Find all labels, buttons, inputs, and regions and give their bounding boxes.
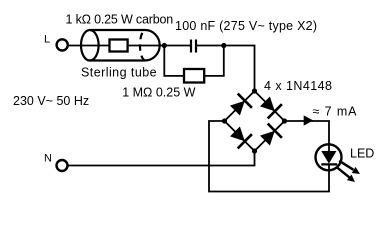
resistor R2 (1 MOhm) — [184, 69, 204, 83]
svg-text:Sterling tube: Sterling tube — [81, 65, 157, 79]
wire: L terminal to R1 — [68, 45, 110, 47]
wire: node A to capacitor C1 — [164, 45, 190, 47]
svg-text:N: N — [44, 153, 52, 165]
svg-text:1 kΩ 0.25 W carbon: 1 kΩ 0.25 W carbon — [66, 12, 174, 26]
node A (junction dot) — [162, 43, 167, 48]
LED D5 — [316, 144, 342, 170]
node B (junction dot) — [221, 43, 226, 48]
capacitor C1 (100 nF) — [191, 40, 196, 53]
wire: bridge right node to LED (with current arrow) — [285, 121, 330, 144]
wire: R1 to node A — [128, 45, 165, 47]
wire: R2 up to node B — [204, 46, 224, 76]
Sterling tube envelope — [81, 30, 160, 61]
resistor R1 (1 kOhm, inside tube) — [110, 40, 128, 52]
terminal L — [57, 39, 68, 50]
bridge edges (wires) — [225, 91, 285, 151]
LED light arrow 2 — [337, 167, 355, 182]
terminal N — [57, 160, 68, 171]
diode D3 (left node to bottom node) — [230, 127, 252, 149]
bridge right node — [282, 118, 287, 123]
diode D4 (bottom node to right node) — [260, 124, 282, 146]
svg-text:L: L — [44, 33, 50, 45]
diode D2 (top node to right node) — [260, 97, 282, 119]
wire: node B to bridge top node — [224, 46, 255, 92]
svg-text:230 V~ 50 Hz: 230 V~ 50 Hz — [13, 94, 89, 108]
wire: LED cathode down to bottom rail, rail to left riser, up to bridge left node — [209, 121, 329, 192]
LED light arrow 1 — [339, 161, 360, 174]
diode D1 (left node to top node) — [230, 94, 252, 116]
wire: N terminal to bridge bottom node — [68, 151, 255, 166]
current direction arrow (~7 mA) — [304, 115, 314, 125]
svg-text:LED: LED — [350, 147, 374, 161]
svg-text:1 MΩ 0.25 W: 1 MΩ 0.25 W — [122, 86, 195, 100]
wire: capacitor C1 to node B — [197, 45, 224, 47]
svg-text:≈ 7 mA: ≈ 7 mA — [313, 105, 358, 119]
bridge left node — [222, 118, 227, 123]
svg-text:100 nF (275 V~ type X2): 100 nF (275 V~ type X2) — [175, 19, 317, 33]
bridge bottom node — [252, 148, 257, 153]
svg-text:4 x 1N4148: 4 x 1N4148 — [264, 79, 332, 93]
wire: node A down to R2 branch — [164, 46, 184, 76]
bridge top node — [252, 88, 257, 93]
